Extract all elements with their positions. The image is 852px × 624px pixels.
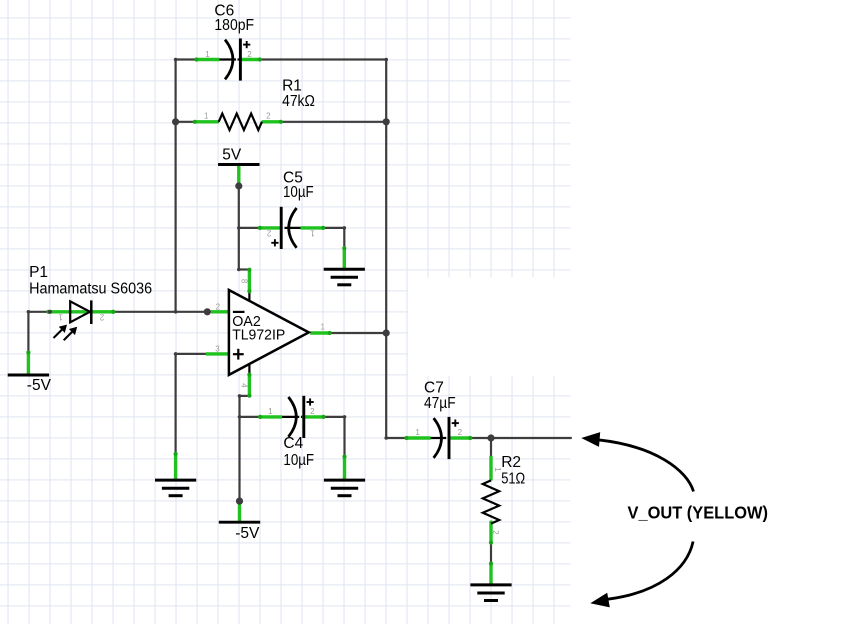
- svg-text:2: 2: [247, 50, 252, 59]
- svg-text:TL972IP: TL972IP: [232, 328, 285, 344]
- svg-text:1: 1: [415, 428, 420, 437]
- svg-text:C4: C4: [283, 435, 303, 452]
- svg-text:2: 2: [99, 313, 104, 322]
- svg-text:1: 1: [204, 111, 209, 120]
- svg-text:51Ω: 51Ω: [501, 471, 525, 488]
- svg-text:4: 4: [239, 383, 248, 388]
- svg-text:P1: P1: [29, 264, 48, 281]
- svg-text:1: 1: [320, 323, 325, 332]
- svg-text:1: 1: [205, 50, 210, 59]
- svg-text:5V: 5V: [222, 147, 242, 164]
- svg-text:1: 1: [58, 313, 63, 322]
- svg-text:10µF: 10µF: [283, 184, 314, 201]
- svg-text:2: 2: [491, 530, 500, 535]
- svg-text:1: 1: [268, 407, 273, 416]
- svg-text:Hamamatsu S6036: Hamamatsu S6036: [29, 281, 152, 298]
- svg-text:3: 3: [215, 345, 220, 354]
- svg-text:2: 2: [458, 428, 463, 437]
- svg-text:2: 2: [266, 229, 271, 238]
- svg-text:R1: R1: [282, 78, 302, 95]
- svg-text:2: 2: [266, 112, 271, 121]
- svg-text:8: 8: [240, 279, 249, 284]
- svg-text:V_OUT (YELLOW): V_OUT (YELLOW): [628, 503, 769, 523]
- svg-text:47kΩ: 47kΩ: [282, 93, 315, 110]
- svg-text:-5V: -5V: [235, 525, 260, 542]
- svg-text:1: 1: [310, 228, 315, 237]
- svg-text:R2: R2: [501, 454, 521, 471]
- svg-text:C7: C7: [424, 380, 444, 397]
- svg-text:2: 2: [310, 407, 315, 416]
- svg-text:10µF: 10µF: [283, 452, 314, 469]
- svg-text:2: 2: [216, 302, 221, 311]
- svg-text:180pF: 180pF: [214, 17, 254, 34]
- svg-text:-5V: -5V: [27, 377, 52, 394]
- svg-text:47µF: 47µF: [424, 395, 456, 412]
- svg-text:1: 1: [493, 467, 502, 472]
